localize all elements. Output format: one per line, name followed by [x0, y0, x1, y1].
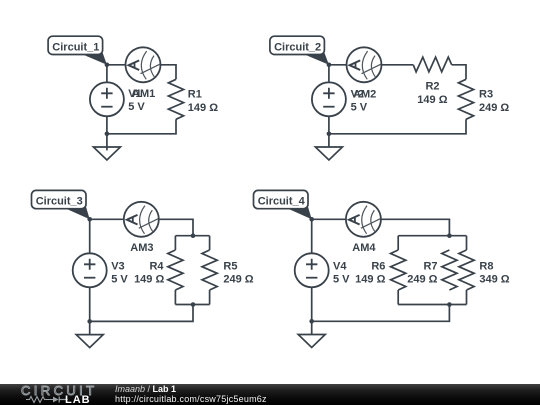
svg-text:5 V: 5 V [128, 101, 145, 113]
svg-text:149 Ω: 149 Ω [355, 273, 385, 285]
svg-text:249 Ω: 249 Ω [407, 273, 437, 285]
svg-text:5 V: 5 V [111, 273, 128, 285]
svg-text:V4: V4 [333, 260, 347, 272]
svg-text:5 V: 5 V [333, 273, 350, 285]
svg-text:AM3: AM3 [130, 242, 153, 254]
svg-text:149 Ω: 149 Ω [188, 102, 218, 114]
svg-text:Circuit_3: Circuit_3 [36, 196, 83, 208]
svg-text:Circuit_2: Circuit_2 [274, 42, 321, 54]
svg-text:AM2: AM2 [353, 88, 376, 100]
svg-text:R7: R7 [423, 260, 437, 272]
svg-text:AM4: AM4 [352, 242, 376, 254]
svg-text:R4: R4 [149, 260, 164, 272]
svg-text:V3: V3 [111, 260, 124, 272]
svg-text:R2: R2 [425, 81, 439, 93]
svg-text:249 Ω: 249 Ω [479, 102, 509, 114]
svg-text:R8: R8 [479, 260, 493, 272]
svg-text:149 Ω: 149 Ω [417, 94, 447, 106]
svg-text:AM1: AM1 [132, 88, 155, 100]
svg-text:Circuit_1: Circuit_1 [52, 42, 99, 54]
svg-text:R6: R6 [371, 260, 385, 272]
svg-text:5 V: 5 V [351, 102, 368, 114]
svg-text:R5: R5 [223, 260, 237, 272]
svg-text:R1: R1 [188, 88, 202, 100]
svg-text:R3: R3 [479, 89, 493, 101]
svg-text:Circuit_4: Circuit_4 [258, 196, 306, 208]
svg-text:149 Ω: 149 Ω [134, 273, 164, 285]
svg-text:249 Ω: 249 Ω [223, 273, 253, 285]
svg-text:349 Ω: 349 Ω [479, 273, 509, 285]
